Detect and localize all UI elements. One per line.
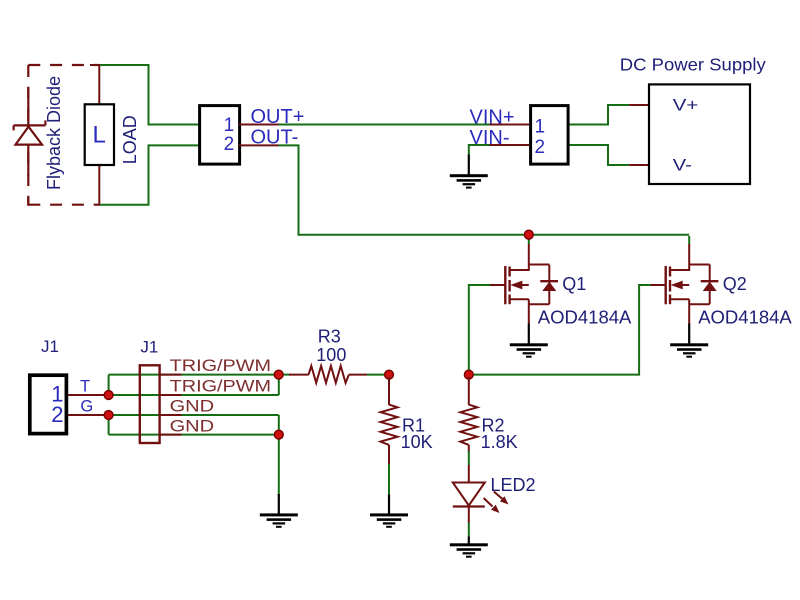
inductor L box [85, 104, 114, 165]
junction drain bus [524, 230, 533, 239]
svg-text:AOD4184A: AOD4184A [698, 306, 792, 327]
ground (Q1 source) [510, 324, 548, 358]
svg-text:2: 2 [51, 402, 63, 427]
pin stub VIN+ [490, 124, 530, 126]
wire R2 to LED2 [468, 451, 470, 466]
wire LOAD top to connector pin 1 [100, 65, 199, 125]
svg-text:J1: J1 [41, 337, 59, 356]
ground (LED2) [450, 537, 488, 558]
svg-text:1.8K: 1.8K [481, 432, 518, 452]
ground (J1 GND) [260, 494, 298, 528]
svg-text:1: 1 [535, 116, 546, 137]
svg-text:DC Power Supply: DC Power Supply [620, 54, 766, 74]
DC power supply box [649, 84, 750, 184]
wire R1 to ground [388, 464, 390, 495]
ground (VIN-) [450, 155, 488, 189]
connector J2 output box [200, 106, 240, 165]
wire junction to R3 [281, 374, 290, 376]
wire VIN- to ground [469, 145, 490, 155]
svg-text:GND: GND [170, 417, 215, 435]
pin stub J1 pin 2 [68, 414, 107, 416]
svg-text:GND: GND [170, 397, 215, 415]
connector J3 input box [531, 106, 569, 165]
pin stub J1 pin 1 [68, 394, 107, 396]
ground (Q2 source) [670, 324, 708, 358]
wire net OUT- to drain bus [279, 145, 690, 234]
diode D1 flyback schottky [14, 87, 46, 176]
wire inductor leads [90, 64, 100, 206]
svg-text:AOD4184A: AOD4184A [538, 306, 632, 327]
svg-text:Q2: Q2 [723, 274, 747, 294]
wire connector pin 2 to V- [570, 145, 630, 165]
wire LED2 to ground [468, 523, 470, 538]
pin stub VIN- [490, 144, 530, 146]
pin V- [629, 164, 669, 166]
wire TRIG/PWM net (J1 to header pins 1-2) [109, 375, 279, 395]
pin V+ [629, 104, 669, 106]
svg-text:10K: 10K [401, 432, 433, 452]
svg-text:100: 100 [316, 345, 346, 365]
svg-text:Flyback Diode: Flyback Diode [44, 76, 64, 190]
transistor Q1 (N-MOSFET) [490, 236, 558, 324]
resistor R2 [460, 377, 477, 452]
svg-text:V+: V+ [673, 96, 699, 115]
svg-text:LOAD: LOAD [120, 115, 140, 164]
svg-text:J1: J1 [140, 338, 158, 357]
junction J1 pin 1 [104, 391, 113, 400]
svg-text:G: G [80, 397, 93, 415]
ground (R1) [370, 495, 408, 528]
wire GND net (J1 to header pins 3-4) [109, 415, 279, 495]
junction J1 pin 2 [104, 411, 113, 420]
wire LOAD bottom to connector pin 2 [100, 145, 199, 204]
connector J1 box [30, 375, 67, 433]
svg-text:TRIG/PWM: TRIG/PWM [170, 378, 272, 396]
svg-text:T: T [80, 378, 90, 396]
wire Q1 gate to TRIG net [469, 285, 490, 375]
wire Q2 gate to TRIG net [469, 285, 651, 375]
wire R3 to junction [367, 374, 389, 376]
junction GND net [274, 430, 283, 439]
pin stub OUT- [239, 144, 279, 146]
wire connector pin 1 to V+ [570, 105, 630, 125]
flyback snubber dashed outline [28, 65, 99, 206]
svg-text:2: 2 [535, 137, 546, 158]
pin header J1 body [140, 365, 160, 443]
LED LED2 [453, 465, 509, 523]
junction R2 / gates tap [464, 370, 473, 379]
svg-text:L: L [93, 122, 106, 149]
resistor R1 [381, 377, 398, 464]
junction R1 tap [385, 370, 394, 379]
resistor R3 [289, 366, 367, 383]
svg-text:2: 2 [224, 134, 235, 155]
transistor Q2 (N-MOSFET) [650, 236, 718, 324]
junction TRIG/PWM bus [274, 370, 283, 379]
svg-text:R3: R3 [318, 327, 341, 347]
pin stub OUT+ [239, 124, 279, 126]
svg-text:V-: V- [673, 155, 692, 174]
pin header J1 pin stubs [160, 375, 182, 435]
wire net OUT+ to VIN+ [279, 124, 491, 126]
svg-text:LED2: LED2 [491, 475, 536, 495]
svg-text:TRIG/PWM: TRIG/PWM [170, 357, 272, 375]
svg-text:Q1: Q1 [562, 274, 586, 294]
